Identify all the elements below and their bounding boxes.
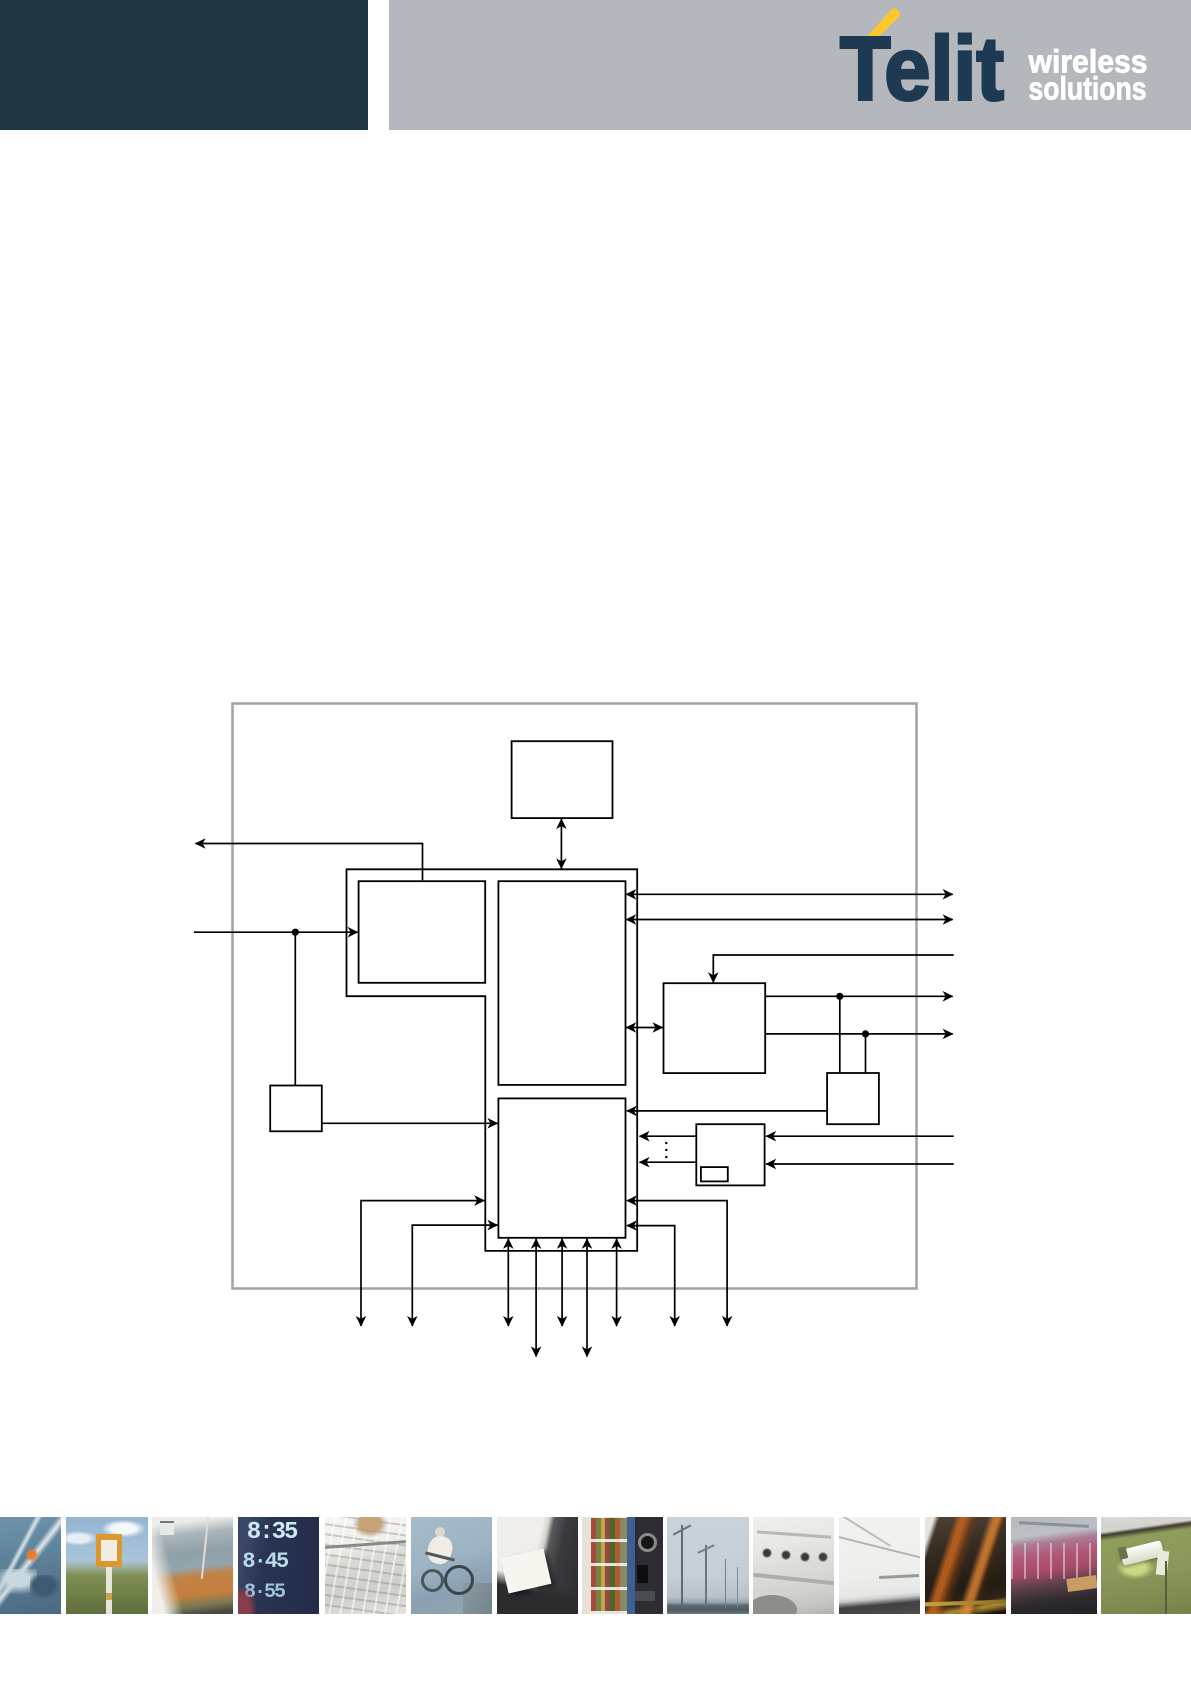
wire input to B2: [194, 931, 358, 933]
photo tile 2: SOS sign: [66, 1517, 148, 1614]
container outline: [347, 869, 638, 1251]
wire double arrow B1 to outline: [560, 819, 562, 869]
wire B6 to B4: [627, 1110, 827, 1112]
wire B5 out lower: [765, 1033, 953, 1035]
wire node to B6 b: [865, 1034, 867, 1073]
photo tile 13: conveyor line: [1011, 1517, 1097, 1614]
wire B3 to B5 double arrow: [626, 1027, 662, 1029]
block diagram: [170, 690, 990, 1380]
header gray panel: [389, 0, 1191, 130]
wire pin3: [561, 1239, 563, 1326]
block B4 lower: [498, 1098, 625, 1237]
node on input wire: [292, 929, 299, 936]
block B7 inner: [701, 1167, 728, 1181]
wire gpio left b: [640, 1161, 697, 1163]
photo tile 6: cyclist: [411, 1517, 492, 1614]
photo tile 14: cctv camera: [1101, 1517, 1191, 1614]
logo antenna (yellow slash): [867, 8, 901, 41]
photo tile 10: kilowatt meter: [753, 1517, 834, 1614]
wire gpio left a: [640, 1135, 697, 1137]
photo tile 9: wind turbines: [667, 1517, 749, 1614]
wire B8 to B4: [322, 1122, 498, 1124]
wire pin4 long: [586, 1239, 588, 1357]
wire B5 out upper: [765, 995, 953, 997]
wire node to B6 a: [839, 996, 841, 1072]
gpio ellipsis: [665, 1142, 667, 1158]
footer photo strip: [0, 1517, 1191, 1614]
wire pin1: [507, 1239, 509, 1326]
photo tile 1: night road: [0, 1517, 61, 1614]
header dark panel: [0, 0, 368, 130]
photo tile 4: led clock: [238, 1517, 319, 1614]
svg-text:solutions: solutions: [1029, 70, 1147, 106]
wire left output arrow: [196, 844, 423, 881]
node upper: [836, 993, 843, 1000]
wire hook left2: [412, 1225, 497, 1326]
wire hook left1: [361, 1201, 484, 1326]
block B5 right: [664, 983, 766, 1073]
photo tile 12: train platform: [925, 1517, 1006, 1614]
wire bus2 B3 right: [626, 919, 953, 921]
block B6 small right: [827, 1073, 879, 1124]
wire pin2 long: [535, 1239, 537, 1357]
photo tile 8: vending machine: [582, 1517, 663, 1614]
Telit logo: [0, 0, 1191, 140]
svg-text:Telit: Telit: [840, 20, 1004, 120]
photo tile 11: white panel: [839, 1517, 920, 1614]
block B3 tall: [498, 881, 625, 1085]
node lower: [862, 1030, 869, 1037]
block B1 top: [512, 741, 613, 818]
outer frame: [233, 704, 917, 1289]
wire hook right2: [627, 1226, 675, 1326]
photo tile 7: envelope on desk: [497, 1517, 578, 1614]
wire into B5 top: [713, 955, 953, 982]
block B8 small left: [270, 1086, 322, 1132]
wire bus1 B3 right: [626, 893, 953, 895]
wire node to B8: [294, 932, 296, 1085]
block B2 left: [359, 881, 486, 983]
wire gpio right a: [766, 1135, 954, 1137]
block B7 gpio: [696, 1124, 764, 1185]
photo tile 3: containers: [152, 1517, 233, 1614]
wire pin5: [616, 1239, 618, 1326]
photo tile 5: laptop and coffee: [325, 1517, 406, 1614]
wire gpio right b: [766, 1163, 954, 1165]
wire hook right1: [627, 1201, 727, 1326]
